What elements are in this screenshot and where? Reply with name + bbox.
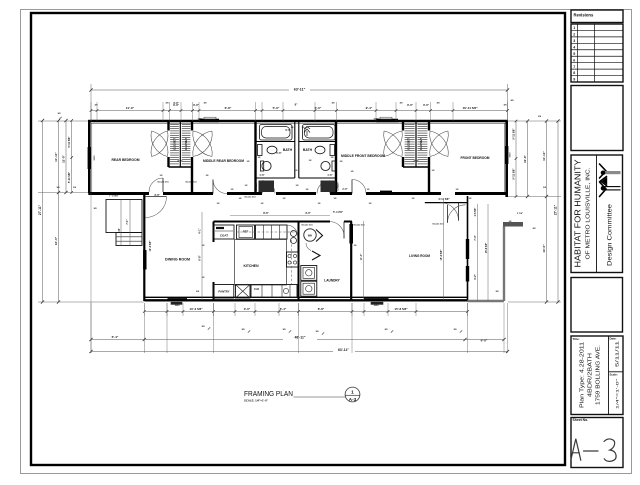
svg-text:REAR BEDROOM: REAR BEDROOM bbox=[112, 158, 140, 162]
svg-text:6'-8": 6'-8" bbox=[225, 106, 232, 110]
svg-text:4BDR/2BATH: 4BDR/2BATH bbox=[588, 353, 594, 397]
svg-text:3050: 3050 bbox=[510, 152, 512, 158]
svg-text:11'-4": 11'-4" bbox=[360, 253, 363, 260]
svg-text:6'-8": 6'-8" bbox=[199, 254, 202, 260]
svg-text:2030: 2030 bbox=[198, 118, 204, 120]
svg-text:OF METRO LOUISVILLE, INC.: OF METRO LOUISVILLE, INC. bbox=[586, 167, 592, 260]
svg-text:3050: 3050 bbox=[374, 305, 380, 307]
svg-text:2: 2 bbox=[573, 33, 575, 37]
svg-text:27'-11": 27'-11" bbox=[38, 204, 42, 215]
svg-text:4: 4 bbox=[573, 45, 575, 49]
svg-text:3'-0": 3'-0" bbox=[193, 103, 200, 107]
svg-text:Scale:: Scale: bbox=[610, 372, 618, 376]
svg-text:3'-8 5/8": 3'-8 5/8" bbox=[475, 208, 477, 217]
svg-text:REF: REF bbox=[243, 230, 249, 234]
svg-text:5'-0": 5'-0" bbox=[273, 106, 280, 110]
svg-text:16'-0": 16'-0" bbox=[54, 236, 58, 245]
svg-text:11'-0": 11'-0" bbox=[126, 106, 135, 110]
svg-text:Smoke Det: Smoke Det bbox=[432, 223, 444, 226]
svg-text:3050: 3050 bbox=[175, 305, 181, 307]
svg-text:11'-0": 11'-0" bbox=[523, 155, 527, 163]
svg-text:Smoke Det: Smoke Det bbox=[185, 181, 197, 184]
svg-text:Revisions: Revisions bbox=[574, 13, 594, 18]
svg-text:LAUNDRY: LAUNDRY bbox=[324, 279, 340, 283]
svg-text:6'-4": 6'-4" bbox=[280, 307, 287, 311]
svg-text:Date:: Date: bbox=[610, 337, 617, 341]
svg-text:9'-4": 9'-4" bbox=[366, 106, 373, 110]
svg-text:11'-0": 11'-0" bbox=[62, 155, 66, 163]
svg-text:7: 7 bbox=[573, 65, 575, 69]
svg-text:FRAMING PLAN: FRAMING PLAN bbox=[244, 389, 293, 398]
svg-text:Title:: Title: bbox=[573, 337, 580, 341]
svg-text:16'-11 5/8": 16'-11 5/8" bbox=[462, 106, 478, 110]
svg-text:LINEN: LINEN bbox=[254, 182, 258, 190]
svg-text:2'-0": 2'-0" bbox=[342, 188, 347, 191]
svg-text:COAT: COAT bbox=[220, 234, 228, 238]
svg-text:27'-11": 27'-11" bbox=[554, 204, 558, 215]
svg-text:LINEN: LINEN bbox=[336, 182, 340, 190]
svg-text:Sheet No.: Sheet No. bbox=[573, 418, 589, 422]
svg-text:5 7/8": 5 7/8" bbox=[517, 213, 523, 215]
svg-text:15'-0 5/8": 15'-0 5/8" bbox=[440, 249, 443, 261]
svg-text:16'-0": 16'-0" bbox=[542, 244, 546, 253]
svg-text:3050: 3050 bbox=[94, 155, 96, 161]
svg-text:8'-8": 8'-8" bbox=[318, 307, 325, 311]
svg-text:1'-6": 1'-6" bbox=[327, 174, 332, 177]
svg-text:10'-3 5/8": 10'-3 5/8" bbox=[189, 307, 203, 311]
svg-text:3'-0": 3'-0" bbox=[407, 103, 414, 107]
svg-text:5'-11 5/8": 5'-11 5/8" bbox=[512, 168, 516, 180]
svg-text:LIVING ROOM: LIVING ROOM bbox=[409, 254, 430, 258]
svg-text:6: 6 bbox=[573, 58, 575, 62]
svg-text:4'-1": 4'-1" bbox=[199, 227, 202, 233]
svg-text:5'-11 5/8": 5'-11 5/8" bbox=[67, 171, 71, 183]
svg-text:15'-8 5/8": 15'-8 5/8" bbox=[485, 243, 488, 253]
svg-text:Smoke Det: Smoke Det bbox=[157, 181, 169, 184]
svg-text:WH: WH bbox=[308, 234, 312, 238]
svg-text:SCALE: 1/4"=1'-0": SCALE: 1/4"=1'-0" bbox=[244, 399, 269, 403]
svg-text:BATH: BATH bbox=[283, 148, 293, 152]
svg-text:7'-1": 7'-1" bbox=[126, 219, 129, 224]
svg-text:A-3: A-3 bbox=[349, 397, 357, 402]
svg-text:63'-11": 63'-11" bbox=[338, 348, 349, 352]
svg-text:3'-0": 3'-0" bbox=[423, 103, 430, 107]
svg-text:63'-11": 63'-11" bbox=[294, 88, 306, 92]
svg-text:3'-0": 3'-0" bbox=[173, 101, 179, 105]
svg-text:CLOSET: CLOSET bbox=[419, 138, 423, 150]
svg-text:48'-11": 48'-11" bbox=[295, 336, 306, 340]
svg-text:3'-0": 3'-0" bbox=[305, 211, 311, 215]
svg-text:Smoke Det: Smoke Det bbox=[301, 224, 313, 227]
svg-text:5/11/11: 5/11/11 bbox=[615, 340, 620, 367]
svg-text:7'-4": 7'-4" bbox=[474, 235, 477, 240]
svg-text:5'-0": 5'-0" bbox=[315, 106, 322, 110]
svg-text:CLOSET: CLOSET bbox=[184, 138, 188, 150]
svg-text:PANTRY: PANTRY bbox=[218, 290, 229, 294]
svg-text:5'-6": 5'-6" bbox=[276, 152, 281, 155]
svg-text:5'-11 5/8": 5'-11 5/8" bbox=[67, 136, 71, 148]
svg-text:7'-0 5/8": 7'-0 5/8" bbox=[109, 194, 120, 198]
svg-text:CLOSET: CLOSET bbox=[407, 138, 411, 150]
svg-text:MIDDLE FRONT BEDROOM: MIDDLE FRONT BEDROOM bbox=[341, 154, 385, 158]
svg-text:1/4"=1'-0": 1/4"=1'-0" bbox=[615, 378, 620, 409]
svg-text:CLOSET: CLOSET bbox=[173, 138, 177, 150]
svg-text:3: 3 bbox=[573, 39, 575, 43]
svg-text:4'-0": 4'-0" bbox=[413, 160, 418, 163]
svg-text:Design Committee: Design Committee bbox=[607, 203, 614, 266]
svg-text:5'-4 7/8": 5'-4 7/8" bbox=[333, 210, 344, 214]
svg-text:2030: 2030 bbox=[374, 118, 380, 120]
svg-text:3'-0": 3'-0" bbox=[244, 307, 251, 311]
svg-text:1759 BOLLING AVE.: 1759 BOLLING AVE. bbox=[596, 345, 602, 405]
svg-text:6'-0": 6'-0" bbox=[481, 339, 488, 343]
svg-text:8: 8 bbox=[573, 71, 575, 75]
svg-text:15'-8 5/8": 15'-8 5/8" bbox=[394, 307, 408, 311]
svg-text:10'-0 5/8": 10'-0 5/8" bbox=[149, 240, 152, 252]
svg-text:6'-2": 6'-2" bbox=[474, 274, 477, 279]
svg-text:CLB: CLB bbox=[254, 288, 259, 291]
svg-text:FRONT BEDROOM: FRONT BEDROOM bbox=[461, 156, 490, 160]
svg-text:HABITAT FOR HUMANITY: HABITAT FOR HUMANITY bbox=[573, 159, 583, 267]
svg-text:8'-6": 8'-6" bbox=[263, 211, 269, 215]
svg-text:4'-0": 4'-0" bbox=[177, 160, 182, 163]
svg-text:11'-11": 11'-11" bbox=[542, 151, 546, 161]
svg-text:Smoke Det: Smoke Det bbox=[353, 224, 365, 227]
svg-text:5'-11 5/8": 5'-11 5/8" bbox=[512, 128, 516, 140]
svg-text:KITCHEN: KITCHEN bbox=[243, 264, 259, 268]
svg-text:4'-11 5/8": 4'-11 5/8" bbox=[438, 197, 450, 201]
svg-text:MIDDLE REAR BEDROOM: MIDDLE REAR BEDROOM bbox=[203, 159, 244, 163]
svg-text:3'-0": 3'-0" bbox=[154, 193, 160, 197]
svg-text:5: 5 bbox=[573, 52, 575, 56]
svg-text:15': 15' bbox=[118, 228, 121, 232]
svg-text:6'-4": 6'-4" bbox=[112, 335, 119, 339]
svg-text:Smoke Det: Smoke Det bbox=[244, 196, 256, 199]
svg-text:1'-6": 1'-6" bbox=[259, 174, 264, 177]
svg-text:Plan Type: 4.28-2011: Plan Type: 4.28-2011 bbox=[580, 342, 586, 408]
svg-text:1: 1 bbox=[351, 390, 354, 396]
svg-text:6'-0": 6'-0" bbox=[285, 129, 290, 132]
svg-text:9: 9 bbox=[573, 78, 575, 82]
svg-text:11'-11": 11'-11" bbox=[54, 152, 58, 162]
svg-text:BATH: BATH bbox=[303, 148, 313, 152]
svg-text:DINING ROOM: DINING ROOM bbox=[165, 258, 190, 262]
svg-text:1: 1 bbox=[573, 26, 575, 30]
